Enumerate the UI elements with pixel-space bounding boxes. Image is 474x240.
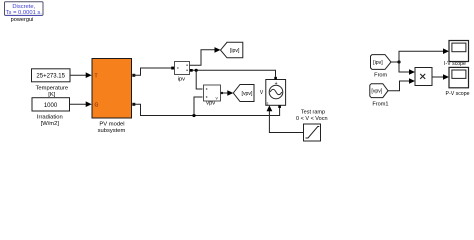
scope block I-V scope: [449, 41, 469, 62]
svg-text:vpv: vpv: [206, 101, 215, 107]
svg-text:[ipv]: [ipv]: [230, 48, 240, 54]
svg-text:+: +: [275, 81, 278, 87]
wire constant to PV G input: [70, 101, 92, 107]
svg-text:[vpv]: [vpv]: [371, 89, 383, 95]
current measurement block ipv: [175, 62, 190, 75]
PV top output port: [132, 74, 135, 77]
scope block P-V scope: [449, 67, 469, 87]
wire junction up to I-V scope: [399, 48, 449, 62]
wire vpv output to goto [vpv]: [221, 90, 234, 96]
svg-text:Discrete,: Discrete,: [12, 4, 35, 10]
junction node at vpv - tap: [192, 114, 195, 117]
svg-text:T: T: [95, 73, 98, 79]
wire source minus down and left to PV bottom output: [134, 104, 280, 115]
junction node: [397, 60, 400, 63]
svg-text:ipv: ipv: [178, 76, 186, 82]
wire ramp output to source control input: [267, 105, 304, 132]
svg-text:powergui: powergui: [11, 17, 34, 23]
svg-text:[ipv]: [ipv]: [373, 60, 383, 66]
svg-text:[vpv]: [vpv]: [242, 91, 254, 97]
svg-text:G: G: [95, 102, 99, 108]
wire PV top output to ipv block: [134, 67, 174, 76]
svg-text:subsystem: subsystem: [98, 128, 126, 134]
svg-text:[W/m2]: [W/m2]: [41, 121, 60, 127]
from block [ipv]: [371, 55, 392, 70]
constant block 25+273.15: [32, 69, 71, 82]
svg-text:From: From: [374, 72, 387, 78]
svg-text:PV model: PV model: [99, 122, 124, 128]
goto block [ipv]: [221, 42, 243, 58]
PV model subsystem block: [92, 59, 132, 119]
product block: [415, 68, 432, 86]
svg-text:25+273.15: 25+273.15: [36, 74, 65, 80]
from block [vpv]: [370, 84, 388, 98]
wire tap up to vpv - input: [194, 97, 203, 116]
svg-text:Irradiation: Irradiation: [37, 115, 63, 121]
constant block 1000: [32, 98, 70, 111]
ramp source block (Test ramp): [304, 124, 321, 141]
wire ipv minus terminal to source + (electrical): [190, 69, 276, 77]
PV bottom output port mark: [132, 103, 135, 106]
svg-text:s: s: [266, 102, 268, 106]
wire ipv i-output to goto [ipv]: [190, 47, 221, 65]
wire from [vpv] to product input 2: [388, 78, 415, 91]
junction node at vpv + tap: [195, 69, 198, 72]
wire product to P-V scope: [432, 74, 449, 80]
svg-text:From1: From1: [372, 101, 388, 107]
svg-text:1000: 1000: [44, 103, 58, 109]
wire junction down to product input 1: [399, 62, 415, 75]
svg-text:0 < V < Vocn: 0 < V < Vocn: [296, 116, 328, 122]
svg-text:P-V scope: P-V scope: [446, 91, 470, 97]
svg-text:Ts = 0.0001 s.: Ts = 0.0001 s.: [6, 10, 43, 16]
svg-text:Temperature: Temperature: [36, 86, 69, 92]
svg-text:[K]: [K]: [48, 92, 55, 98]
voltage measurement block vpv: [204, 85, 221, 101]
goto block [vpv]: [233, 85, 254, 102]
controlled voltage source block V: [266, 77, 286, 108]
wire tap down to vpv + input: [196, 70, 202, 89]
wire from [ipv] to junction: [391, 61, 399, 63]
svg-text:Test ramp: Test ramp: [301, 110, 325, 116]
powergui block: [5, 2, 44, 16]
svg-text:I-V scope: I-V scope: [444, 61, 466, 67]
wire constant to PV T input: [70, 72, 92, 78]
